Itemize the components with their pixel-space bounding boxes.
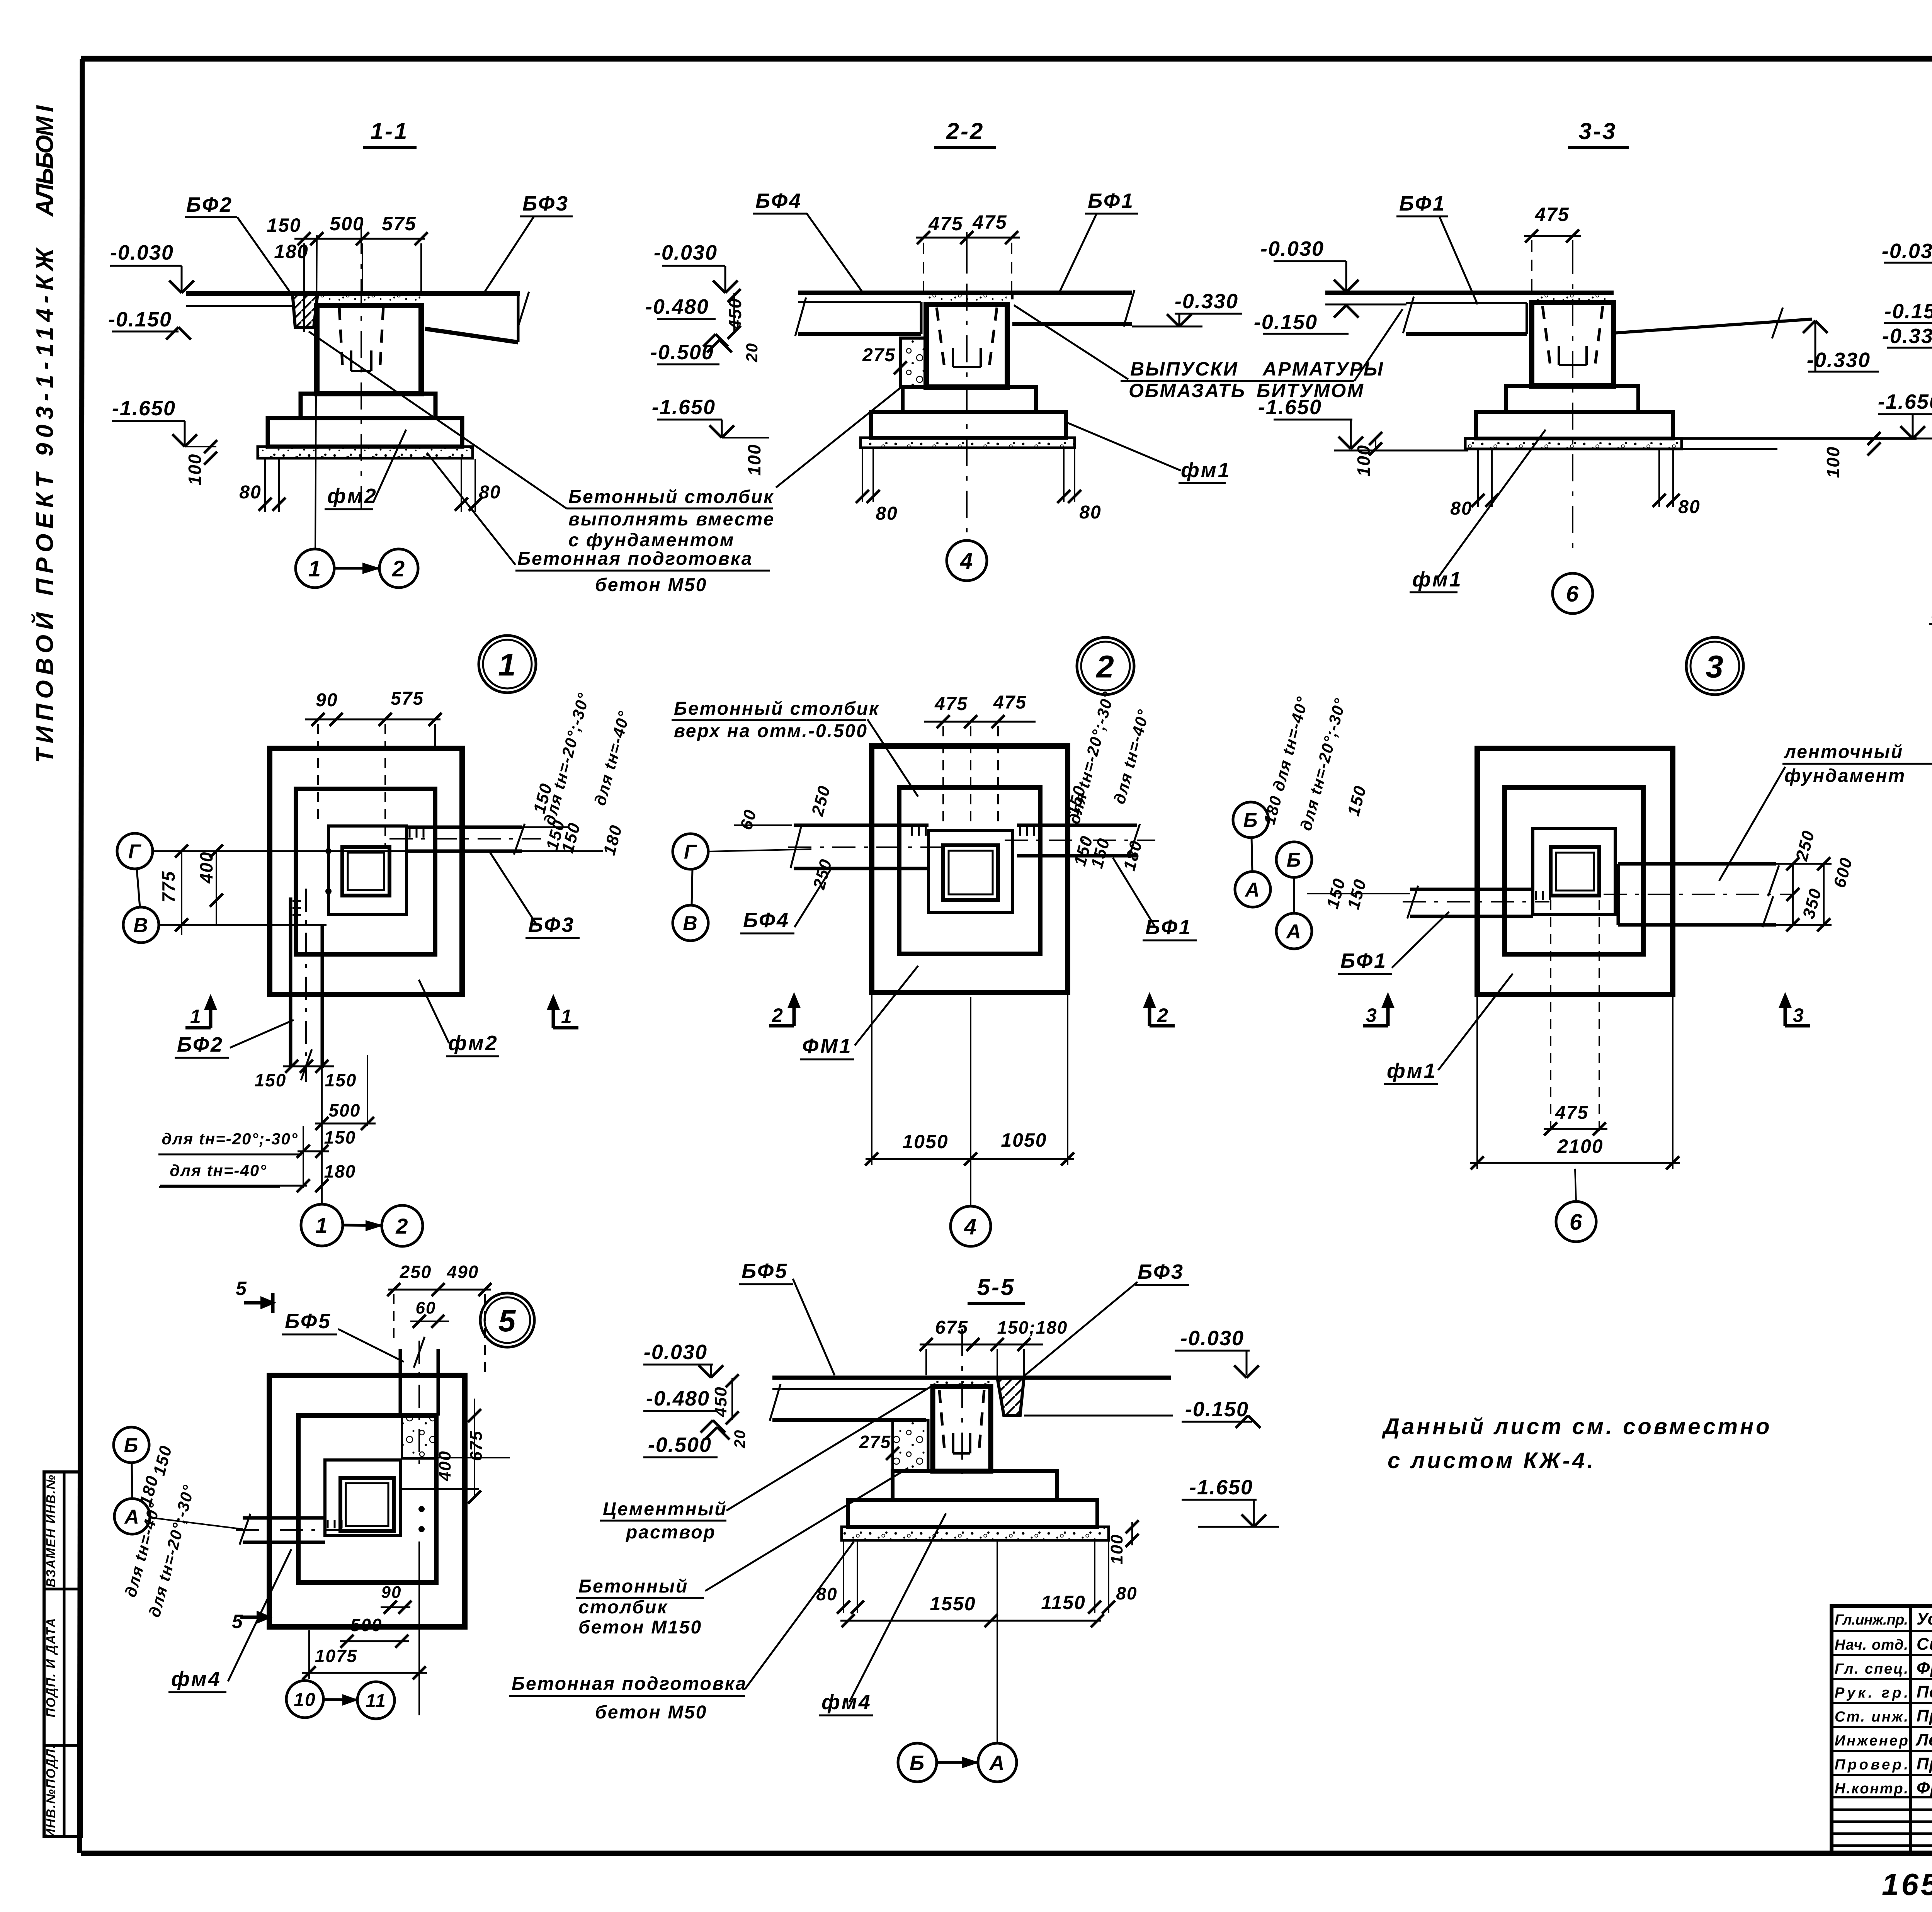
svg-text:475: 475 [934,694,968,714]
section 1-1 floor line [186,291,520,296]
plan 3 beam BF1 left [1410,888,1533,891]
svg-text:6: 6 [1566,581,1579,607]
svg-text:-0.330: -0.330 [1882,325,1932,348]
svg-text:Гл.инж.пр.: Гл.инж.пр. [1835,1612,1908,1628]
svg-text:-0.150: -0.150 [108,308,172,331]
svg-text:100: 100 [1354,445,1374,477]
plan 1 column [342,847,389,896]
svg-text:Полякова: Полякова [1917,1683,1932,1701]
svg-text:Бетонная подготовка: Бетонная подготовка [512,1674,747,1694]
svg-text:-0.030: -0.030 [1882,240,1932,263]
svg-text:Бетонный: Бетонный [578,1576,688,1597]
svg-text:2100: 2100 [1557,1135,1603,1157]
svg-text:11: 11 [366,1691,386,1711]
section 5-5 bottom dims 80 1550 1150 [843,1541,844,1613]
svg-text:с листом КЖ-4.: с листом КЖ-4. [1388,1448,1596,1473]
section 2-2 base slab [871,412,1066,438]
svg-text:16591-05: 16591-05 [1882,1867,1932,1902]
section 1-1 bedding [258,447,473,458]
svg-text:100: 100 [185,454,205,486]
svg-text:475: 475 [993,692,1027,713]
svg-text:10: 10 [294,1689,316,1710]
section 3-3 step [1506,386,1638,412]
svg-text:-1.650: -1.650 [112,397,176,420]
svg-text:А: А [989,1751,1005,1774]
plan 2 top dims 475 475 [924,721,1036,723]
svg-text:1-1: 1-1 [371,118,409,144]
svg-text:500: 500 [329,1100,361,1120]
svg-text:БФ1: БФ1 [1399,192,1446,215]
svg-text:1: 1 [308,556,321,581]
plan 2 section mark 2 left [793,997,796,1026]
svg-text:БФ1: БФ1 [1340,949,1387,972]
svg-text:100: 100 [1823,446,1843,478]
svg-text:Бетонная подготовка: Бетонная подготовка [517,549,753,569]
plan 5 axis B [114,1427,149,1463]
svg-text:5-5: 5-5 [977,1274,1015,1300]
svg-text:-0.500: -0.500 [648,1433,712,1457]
svg-text:150: 150 [324,1127,356,1147]
plan 2 beam BF1 right [1017,824,1137,827]
section 1-1 bottom dims 80 [264,459,266,512]
svg-text:БФ5: БФ5 [742,1259,788,1283]
section 5-5 centerline [961,1329,963,1480]
svg-text:1: 1 [315,1213,328,1237]
svg-text:ОБМАЗАТЬ: ОБМАЗАТЬ [1129,380,1246,401]
section 5-5 base slab [848,1500,1097,1527]
svg-text:Цементный: Цементный [603,1499,727,1519]
svg-text:Гл. спец.: Гл. спец. [1835,1661,1908,1677]
svg-text:-0.150: -0.150 [1254,311,1318,334]
plan 2 step contour [929,830,1013,913]
svg-text:БФ3: БФ3 [522,192,569,215]
section 2-2 column [926,304,1007,387]
svg-text:80: 80 [1450,498,1472,519]
svg-text:275: 275 [862,345,896,365]
svg-text:150: 150 [325,1070,357,1090]
svg-text:-0.030: -0.030 [1260,237,1324,260]
svg-text:Пронина: Пронина [1917,1706,1932,1725]
svg-text:5: 5 [236,1278,247,1299]
section 3-3 axis circle 6 [1553,573,1593,614]
plan 2 outer contour [872,746,1068,993]
section 1-1 column socket [339,307,343,371]
svg-text:для tн=-40°: для tн=-40° [170,1161,267,1179]
svg-text:БФ3: БФ3 [1138,1260,1184,1283]
svg-text:1550: 1550 [930,1593,976,1615]
section 2-2 step [903,387,1036,412]
svg-text:-0.030: -0.030 [644,1341,707,1364]
svg-text:4: 4 [960,549,973,574]
plan 3 outer contour [1477,748,1673,994]
svg-text:Б: Б [124,1434,139,1457]
svg-text:1050: 1050 [1001,1129,1047,1151]
section 1-1 beam BF3 right [425,329,518,342]
svg-text:60: 60 [416,1298,436,1317]
svg-text:1150: 1150 [1041,1592,1086,1613]
section 2-2 bottom dims 80 [862,449,863,502]
svg-text:для tн=-20°;-30°: для tн=-20°;-30° [162,1130,298,1148]
plan 1 middle contour [296,789,435,954]
svg-text:-0.480: -0.480 [646,1387,710,1410]
section 5-5 wedge BF3 right [997,1378,1024,1416]
plan 1 axis circles 1-2 bottom [301,1204,343,1246]
section 2-2 column socket [937,308,944,367]
section 2-2 top dims 475 475 [916,237,1020,239]
svg-text:150: 150 [267,214,301,236]
plan 1 bottom dims [283,1066,334,1067]
section 3-3 column [1532,303,1614,386]
svg-text:250: 250 [400,1262,432,1282]
svg-text:180: 180 [274,241,308,262]
left margin boxes (inv/podp) [44,1472,81,1837]
section 1-1 column [317,306,421,394]
svg-text:1: 1 [190,1006,202,1027]
svg-text:20: 20 [731,1429,748,1449]
section 3-3 base slab [1476,412,1673,438]
plan 3 section mark 3 right [1784,997,1787,1026]
svg-text:475: 475 [928,213,963,235]
plan 3 middle contour [1505,787,1643,954]
svg-text:500: 500 [350,1615,383,1635]
svg-text:ФМ1: ФМ1 [802,1035,852,1058]
section 2-2 beam BF1 right [1012,322,1132,326]
section 5-5 axis circles B-A [898,1743,937,1782]
svg-text:475: 475 [972,211,1007,233]
svg-text:1: 1 [561,1006,573,1027]
svg-text:В: В [133,914,149,937]
svg-text:80: 80 [876,503,898,524]
section 2-2 axis circle 4 [947,540,987,581]
svg-text:80: 80 [1678,497,1700,517]
plan 3 bottom dims 475 2100 [1550,900,1551,1134]
svg-text:90: 90 [381,1583,402,1602]
section 5-5 concrete post block [893,1420,928,1471]
svg-text:-1.650: -1.650 [1258,396,1322,419]
svg-text:БФ1: БФ1 [1088,189,1134,212]
sheet border frame [81,56,1932,62]
svg-text:Френкель: Френкель [1917,1778,1932,1797]
svg-text:2: 2 [1095,649,1115,685]
section 5-5 column socket [939,1390,945,1453]
svg-text:575: 575 [382,213,416,235]
svg-text:ленточный: ленточный [1784,742,1903,762]
svg-text:675: 675 [935,1317,968,1338]
plan 3 view circle [1686,637,1743,695]
plan 3 section mark 3 left [1386,997,1390,1026]
plan 2 bottom dims 1050 1050 [871,994,872,1165]
svg-text:А: А [124,1506,140,1528]
svg-text:Б: Б [910,1751,925,1774]
svg-text:3: 3 [1366,1004,1378,1026]
section 5-5 column [933,1387,991,1471]
plan 2 axis B [1233,802,1269,838]
svg-text:раствор: раствор [625,1522,716,1543]
svg-text:БФ1: БФ1 [1145,916,1192,939]
svg-text:-1.650: -1.650 [1189,1476,1253,1499]
svg-text:Данный лист см. совместно: Данный лист см. совместно [1381,1414,1772,1439]
svg-text:400: 400 [196,851,216,884]
plan 2 axis A [1235,872,1270,907]
svg-text:6: 6 [1570,1210,1583,1235]
svg-text:80: 80 [1116,1583,1137,1603]
svg-text:-0.330: -0.330 [1807,348,1871,372]
svg-text:-0.330: -0.330 [1175,290,1238,313]
plan 2 section mark 2 right [1148,997,1151,1026]
svg-text:100: 100 [744,444,764,476]
svg-text:490: 490 [447,1262,479,1282]
plan 2 axis circle 4 [951,1206,991,1246]
svg-text:БФ2: БФ2 [177,1033,224,1056]
svg-text:Ускова: Ускова [1917,1609,1932,1628]
svg-text:-0.150: -0.150 [1884,300,1932,323]
section 1-1 axis circles 1-2 [296,549,334,588]
svg-text:Симонов: Симонов [1917,1635,1932,1654]
svg-text:3-3: 3-3 [1579,118,1617,144]
svg-text:-0.030: -0.030 [110,241,174,264]
svg-text:-1.650: -1.650 [652,396,716,419]
plan 2 beam BF4 left [794,824,929,827]
svg-text:БФ4: БФ4 [743,909,790,932]
svg-text:150: 150 [255,1070,287,1090]
plan 3 column [1551,847,1599,896]
plan 1 top dims 90 575 [305,719,440,721]
svg-text:ВЫПУСКИ: ВЫПУСКИ [1130,358,1238,380]
svg-text:4: 4 [964,1214,977,1239]
svg-text:1050: 1050 [902,1131,948,1152]
svg-text:100: 100 [1107,1534,1126,1564]
section 5-5 bedding [842,1527,1109,1540]
plan 2 axis V [673,905,708,941]
svg-text:80: 80 [1079,502,1101,523]
svg-text:775: 775 [158,871,179,903]
plan 1 outer contour fm2 [270,748,462,994]
svg-text:БФ5: БФ5 [285,1310,332,1333]
plan 5 view circle [480,1293,534,1347]
svg-text:3: 3 [1706,649,1724,685]
section 3-3 bedding [1465,438,1682,449]
section 2-2 bedding [861,438,1075,448]
svg-text:фм1: фм1 [1387,1059,1437,1083]
svg-text:-0.150: -0.150 [1185,1398,1249,1421]
svg-text:2: 2 [395,1214,408,1238]
svg-text:2-2: 2-2 [946,118,985,144]
svg-text:фм4: фм4 [171,1667,221,1691]
plan 3 axis A [1276,913,1312,949]
svg-text:20: 20 [743,343,761,363]
plan 1 beam BF3 to right [406,826,522,829]
svg-text:фундамент: фундамент [1784,766,1906,786]
plan 5 middle contour [298,1416,436,1582]
svg-text:БФ2: БФ2 [186,193,233,216]
svg-text:фм2: фм2 [448,1032,498,1055]
section 1-1 step [301,394,435,418]
plan 1 step dots [325,848,332,854]
section 5-5 floor line [772,1376,1171,1380]
plan 1 axis V [123,907,159,943]
svg-text:БФ4: БФ4 [755,189,802,212]
plan 3 step contour [1533,828,1615,914]
section 1-1 base slab [268,418,462,447]
plan 2 view circle [1077,637,1134,695]
svg-text:фм1: фм1 [1181,459,1231,482]
svg-text:180: 180 [324,1161,356,1181]
svg-text:Б: Б [1287,849,1302,872]
section 1-1 beam BF2 wedge [293,294,318,327]
svg-text:5: 5 [498,1304,517,1338]
section 1-1 top dims 150 500 575 180 [294,238,425,240]
svg-text:ИНВ.№ПОДЛ.: ИНВ.№ПОДЛ. [44,1744,58,1838]
plan 3 axis circle 6 [1556,1202,1596,1242]
svg-text:А: А [1286,921,1302,943]
plan 3 strip foundation right [1618,862,1776,866]
section 1-1 centerline [361,227,362,510]
svg-text:-1.650: -1.650 [1878,390,1932,413]
section 2-2 centerline [966,232,968,539]
section 3-3 beam BF1 left [1406,302,1527,304]
svg-text:1: 1 [498,648,517,683]
svg-text:675: 675 [467,1430,486,1461]
plan 5 outer contour fm4 [269,1375,465,1627]
section 3-3 bottom dims 80 [1477,450,1479,507]
svg-text:475: 475 [1534,204,1569,225]
plan 1 beam BF2 down [289,897,293,1068]
svg-text:150;180: 150;180 [997,1317,1068,1338]
section 3-3 top dim 475 [1524,235,1581,237]
svg-text:2: 2 [1157,1004,1169,1026]
svg-text:3: 3 [1793,1004,1804,1026]
svg-text:бетон М50: бетон М50 [595,575,707,595]
section 3-3 floor line [1325,291,1614,295]
plan 5 beam BF3 left [243,1516,325,1520]
svg-text:бетон М50: бетон М50 [595,1702,707,1723]
svg-text:400: 400 [435,1450,454,1481]
svg-text:фм2: фм2 [327,484,378,508]
plan 2 middle contour [899,787,1040,954]
svg-text:500: 500 [330,213,364,235]
svg-text:Г: Г [128,841,141,863]
svg-text:-0.500: -0.500 [650,341,714,364]
plan 5 step contour [325,1460,400,1536]
svg-text:Френкель: Френкель [1917,1659,1932,1677]
svg-text:-0.480: -0.480 [645,295,709,318]
svg-text:А: А [1244,879,1260,901]
svg-text:275: 275 [859,1432,891,1452]
svg-text:Г: Г [684,841,697,863]
section 5-5 beam BF5 left [772,1388,926,1390]
svg-text:Бетонный столбик: Бетонный столбик [674,699,879,719]
section 3-3 column socket [1543,306,1550,365]
section 3-3 centerline [1572,247,1573,549]
section 3-3 right level line -0.330 [1614,319,1812,333]
svg-text:столбик: столбик [578,1597,668,1618]
svg-text:АРМАТУРЫ: АРМАТУРЫ [1262,358,1384,380]
svg-text:2: 2 [392,556,405,581]
section 2-2 concrete post block [900,338,926,387]
svg-text:бетон М150: бетон М150 [578,1617,702,1638]
plan 1 section mark 1 right [552,999,555,1028]
svg-text:фм4: фм4 [821,1691,872,1714]
plan 5 column [340,1478,394,1531]
svg-text:5: 5 [232,1611,243,1632]
svg-text:В: В [683,913,698,935]
svg-text:Б: Б [1243,809,1259,832]
svg-text:Левицкая: Левицкая [1915,1730,1932,1749]
svg-text:Бетонный столбик: Бетонный столбик [568,487,774,507]
svg-text:80: 80 [239,482,261,503]
svg-text:верх на отм.-0.500: верх на отм.-0.500 [674,721,868,741]
plan 5 beam BF5 down from top [399,1349,402,1416]
svg-text:-0.030: -0.030 [1180,1327,1244,1350]
plan 5 axis A [114,1499,150,1534]
plan 5 axis circles 10-11 [286,1681,323,1718]
svg-text:ПОДП. И ДАТА: ПОДП. И ДАТА [44,1618,58,1718]
svg-text:90: 90 [316,690,338,710]
svg-text:450: 450 [711,1386,730,1417]
section 5-5 step [893,1471,1057,1500]
section 2-2 beam BF4 left [798,301,921,303]
svg-text:ВЗАМЕН ИНВ.№: ВЗАМЕН ИНВ.№ [44,1474,58,1587]
svg-text:выполнять вместе: выполнять вместе [568,509,775,530]
plan 1 axis G [117,833,153,869]
svg-text:БФ3: БФ3 [528,913,575,936]
personnel table [1832,1606,1932,1853]
svg-text:-0.030: -0.030 [654,241,718,264]
section 2-2 floor line [798,291,1132,295]
plan 2 column [943,845,998,900]
svg-text:80: 80 [479,482,501,503]
svg-text:АЛЬБОМ I: АЛЬБОМ I [32,102,58,217]
svg-text:Пронина: Пронина [1917,1754,1932,1773]
plan 2 axis G [673,834,708,869]
svg-text:с фундаментом: с фундаментом [568,530,735,551]
svg-text:575: 575 [391,688,424,709]
svg-text:2: 2 [772,1004,784,1026]
plan 1 view circle [479,636,536,693]
plan 1 section mark 1 left [209,999,213,1028]
svg-text:475: 475 [1555,1103,1588,1123]
plan 1 step contour [328,826,406,914]
plan 3 axis B [1276,842,1312,877]
svg-text:1075: 1075 [315,1646,357,1666]
